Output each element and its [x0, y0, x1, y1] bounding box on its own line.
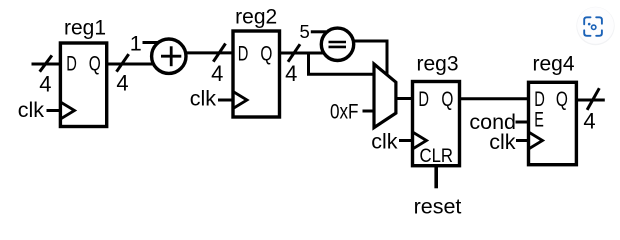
- svg-text:D: D: [238, 42, 249, 65]
- svg-text:4: 4: [211, 61, 223, 86]
- wire adder to reg2 D: [185, 51, 233, 54]
- svg-text:Q: Q: [556, 88, 568, 111]
- comparator U2: [321, 28, 353, 60]
- svg-text:4: 4: [39, 72, 51, 97]
- svg-text:reg1: reg1: [64, 17, 106, 40]
- wire reset to reg3 CLR: [434, 166, 438, 189]
- wire constant 5 to comparator: [311, 30, 326, 33]
- svg-text:4: 4: [285, 61, 297, 86]
- wire reg1 Q to adder: [107, 63, 154, 66]
- wire clk to reg2: [218, 99, 233, 102]
- wire 0xF to mux input 1: [363, 110, 375, 113]
- wire reg1 D input: [32, 63, 61, 66]
- svg-text:4: 4: [583, 108, 595, 133]
- svg-text:D: D: [418, 88, 429, 111]
- wire comparator output to mux select: [354, 41, 387, 77]
- wire reg2 Q to comparator: [280, 52, 324, 55]
- wire mux output to reg3 D: [396, 97, 413, 100]
- wire junction to mux input 0: [307, 73, 374, 76]
- wire reg3 Q to reg4 D: [460, 97, 529, 100]
- svg-text:Q: Q: [89, 53, 101, 76]
- register reg2: [233, 5, 280, 117]
- bus slash reg2 input: [213, 44, 225, 62]
- svg-text:5: 5: [300, 21, 310, 42]
- svg-text:1: 1: [130, 31, 142, 55]
- adder U1: [152, 39, 186, 73]
- wire cond to reg4 E: [516, 121, 529, 124]
- svg-text:Q: Q: [260, 42, 272, 65]
- svg-text:4: 4: [116, 71, 128, 96]
- bus slash reg1 output: [117, 54, 129, 72]
- register reg3: [413, 53, 460, 168]
- svg-text:reset: reset: [414, 194, 462, 218]
- svg-text:clk: clk: [371, 130, 398, 154]
- svg-text:CLR: CLR: [420, 145, 454, 167]
- lens search button: [576, 7, 614, 45]
- svg-text:D: D: [534, 88, 545, 111]
- svg-text:clk: clk: [489, 130, 516, 154]
- bus slash reg4 output: [587, 88, 599, 110]
- wire reg4 Q output: [576, 99, 604, 102]
- svg-text:Q: Q: [441, 88, 453, 111]
- svg-text:reg3: reg3: [416, 53, 458, 76]
- register reg1: [60, 17, 106, 127]
- node junction reg2 Q branch: [307, 53, 310, 74]
- svg-text:0xF: 0xF: [330, 101, 359, 124]
- wire clk to reg1: [47, 109, 61, 112]
- svg-text:reg2: reg2: [235, 5, 277, 28]
- bus slash reg1 input: [40, 55, 52, 71]
- wire clk to reg4: [516, 139, 529, 142]
- svg-text:D: D: [66, 53, 77, 76]
- svg-text:reg4: reg4: [532, 53, 574, 76]
- wire constant 1 to adder: [143, 41, 160, 44]
- svg-text:clk: clk: [190, 87, 217, 111]
- svg-text:clk: clk: [18, 98, 45, 122]
- register reg4: [529, 53, 577, 165]
- mux U3: [374, 64, 396, 128]
- bus slash reg2 output: [288, 44, 300, 62]
- wire clk to reg3: [399, 139, 413, 142]
- svg-text:E: E: [534, 109, 544, 132]
